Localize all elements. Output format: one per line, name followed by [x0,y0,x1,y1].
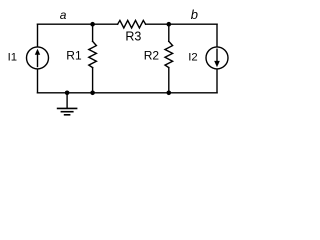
resistor R2 lead lower [168,68,170,93]
svg-text:I1: I1 [8,52,17,64]
resistor R2 lead upper [168,24,170,41]
svg-text:I2: I2 [188,52,197,64]
resistor R2 [165,41,173,67]
wire right branch upper [216,24,218,46]
junction R2 bottom dot [167,91,172,96]
svg-text:R2: R2 [144,49,160,63]
svg-text:a: a [60,8,67,22]
resistor R1 lead upper [92,24,94,41]
resistor R1 [89,41,97,67]
junction ground dot [65,91,70,96]
junction node b dot [167,22,172,27]
wire top-left segment [38,23,118,25]
current source I1 [27,47,49,69]
resistor R3 [118,20,146,28]
junction node a dot [90,22,95,27]
junction R1 bottom dot [90,91,95,96]
wire right branch lower [216,69,218,93]
wire left branch lower [37,69,39,93]
ground [66,93,68,108]
svg-text:R3: R3 [125,29,141,43]
svg-text:R1: R1 [66,49,82,63]
wire top-right segment [146,23,217,25]
wire left branch upper [37,24,39,46]
arrowhead I2 [214,61,220,67]
current source I2 [206,47,228,69]
wire bottom segment [38,92,218,94]
resistor R1 lead lower [92,68,94,93]
svg-text:b: b [191,7,198,22]
arrowhead I1 [35,49,40,55]
